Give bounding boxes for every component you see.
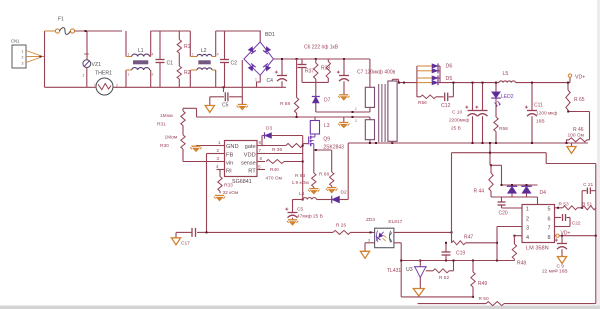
svg-text:C1: C1: [167, 61, 174, 67]
svg-text:22 мкФ 16В: 22 мкФ 16В: [542, 269, 568, 275]
svg-text:2: 2: [355, 119, 357, 123]
transformer primary winding: [365, 87, 374, 139]
svg-text:R 26: R 26: [336, 223, 346, 229]
svg-text:C5: C5: [297, 207, 303, 213]
wire primary top: [369, 59, 371, 87]
svg-text:C 9: C 9: [557, 263, 565, 269]
op-amp U4 LM358 box: [522, 205, 555, 252]
resistor R68: [319, 150, 334, 187]
svg-text:F1: F1: [58, 17, 64, 23]
svg-text:ZD3: ZD3: [366, 217, 375, 223]
svg-text:L5: L5: [503, 71, 509, 77]
bridge diode 3: [248, 64, 256, 72]
resistor R37: [305, 59, 318, 82]
svg-text:GND: GND: [226, 144, 239, 150]
svg-text:RI: RI: [226, 168, 232, 174]
wire feedback: [567, 111, 589, 139]
thermistor THER1: [94, 70, 118, 95]
wire: [44, 31, 46, 87]
shunt ref U3 TL431: [387, 260, 433, 289]
svg-text:THER1: THER1: [95, 70, 112, 76]
wire primary mid lower: [355, 117, 370, 123]
svg-text:L2: L2: [201, 48, 207, 54]
resistor R58 startup: [280, 59, 299, 117]
wire: [183, 108, 197, 117]
svg-text:R 53: R 53: [559, 202, 569, 208]
resistor R2: [177, 53, 191, 87]
svg-text:EL817: EL817: [388, 219, 402, 225]
right rail: [595, 164, 597, 304]
inductor L5: [499, 71, 516, 83]
svg-text:R2: R2: [184, 70, 191, 76]
wire primary mid upper: [316, 107, 370, 113]
svg-text:R 44: R 44: [474, 189, 485, 195]
diode: [432, 80, 440, 85]
wire opto emitter: [394, 243, 401, 297]
svg-text:8: 8: [547, 235, 550, 241]
VD+ terminal: [568, 74, 585, 83]
svg-text:C6 222 пф 1кВ: C6 222 пф 1кВ: [304, 45, 339, 51]
wire aux to winding: [347, 143, 349, 200]
svg-text:2: 2: [526, 216, 529, 222]
svg-text:LED2: LED2: [501, 94, 514, 100]
svg-text:R49: R49: [478, 281, 487, 287]
varistor VZ1: [83, 31, 102, 87]
svg-text:R33: R33: [224, 183, 233, 189]
svg-text:Q9: Q9: [323, 136, 330, 142]
diode row wires: [417, 66, 440, 97]
opto internals: [374, 230, 392, 243]
resistor R53: [555, 202, 583, 210]
diode D7: [312, 82, 331, 112]
svg-text:2200мкф: 2200мкф: [449, 118, 469, 124]
resistor R56 snubber: [417, 95, 444, 106]
svg-text:C4: C4: [267, 78, 274, 84]
svg-text:1: 1: [22, 50, 24, 54]
wire opto cathode: [365, 238, 375, 251]
inductor L3: [310, 117, 329, 134]
svg-text:16В: 16В: [536, 119, 545, 125]
svg-text:D3: D3: [266, 126, 272, 132]
svg-text:3: 3: [128, 53, 130, 57]
ground: [557, 257, 566, 264]
transformer secondary winding: [388, 81, 397, 141]
RC comp C21 R51: [581, 182, 596, 210]
wire bridge top: [259, 31, 261, 42]
svg-text:4: 4: [217, 53, 219, 57]
vref node wire: [401, 260, 514, 262]
wire jog L2 out: [215, 31, 217, 87]
svg-text:7: 7: [547, 226, 550, 232]
inductor L1: [126, 48, 154, 77]
wire jog L1 in: [125, 31, 127, 87]
svg-text:L1: L1: [138, 48, 144, 54]
capacitor C11: [525, 82, 558, 144]
svg-text:VDD: VDD: [244, 152, 256, 158]
svg-text:L3: L3: [324, 123, 330, 129]
svg-text:vin: vin: [226, 160, 233, 166]
ground: [360, 251, 369, 258]
primary DC rail: [273, 58, 370, 60]
svg-text:R37: R37: [305, 69, 314, 75]
svg-text:1: 1: [192, 53, 194, 57]
resistor R26: [333, 223, 351, 235]
capacitor C6: [298, 59, 307, 82]
ground: [413, 289, 424, 297]
secondary rail top: [392, 79, 417, 83]
svg-text:R1: R1: [184, 44, 191, 50]
svg-text:47мкф 25 В: 47мкф 25 В: [297, 214, 323, 220]
svg-text:1Мом: 1Мом: [165, 135, 178, 141]
svg-text:3: 3: [22, 62, 24, 66]
svg-text:5: 5: [258, 165, 261, 170]
ground: [567, 143, 576, 154]
wire jog L1 out: [150, 31, 152, 87]
capacitor C12: [441, 83, 453, 109]
svg-text:D5: D5: [446, 76, 453, 82]
svg-text:25 В: 25 В: [451, 126, 461, 132]
svg-text:R 63: R 63: [295, 173, 305, 179]
svg-text:4: 4: [152, 53, 154, 57]
svg-text:1.9 кОм: 1.9 кОм: [292, 180, 309, 186]
svg-text:R 65: R 65: [574, 97, 585, 103]
bridge diode 2: [263, 46, 271, 54]
wire block top: [452, 152, 596, 243]
svg-text:7: 7: [259, 148, 262, 153]
svg-text:1200 мкф: 1200 мкф: [536, 111, 557, 117]
SG6841 pin stubs: [217, 146, 266, 170]
resistor R31: [157, 108, 185, 135]
svg-text:VD+: VD+: [575, 75, 585, 81]
capacitor C20: [498, 197, 508, 217]
ground: [308, 189, 320, 195]
svg-text:C 10: C 10: [452, 110, 462, 116]
svg-text:R38: R38: [321, 66, 330, 72]
svg-text:1: 1: [526, 207, 529, 213]
wire drain: [314, 133, 316, 135]
svg-text:C 21: C 21: [583, 182, 593, 188]
capacitor C10b: [449, 82, 488, 144]
capacitor C19: [442, 242, 466, 261]
svg-text:C19: C19: [456, 251, 465, 257]
transistor Q9: [309, 134, 344, 151]
svg-text:470 Ом: 470 Ом: [266, 175, 282, 181]
ground: [338, 117, 350, 128]
svg-text:U3: U3: [406, 267, 413, 273]
wire: [400, 260, 473, 297]
svg-text:4: 4: [216, 164, 219, 169]
feedback line: [206, 231, 334, 233]
capacitor C9: [542, 235, 568, 275]
svg-text:3: 3: [217, 156, 220, 161]
diode D3: [262, 126, 303, 146]
resistor R38: [321, 59, 331, 82]
svg-text:1: 1: [255, 78, 257, 82]
svg-text:R 51: R 51: [582, 202, 592, 208]
svg-text:2: 2: [217, 148, 220, 153]
wire: [351, 217, 376, 234]
resistor R30: [160, 135, 185, 162]
ac bottom rail: [45, 86, 287, 88]
wire vdd/gate node: [257, 136, 304, 200]
wire: [317, 199, 332, 201]
svg-text:C22: C22: [572, 220, 581, 226]
ground: [214, 196, 226, 202]
transformer core: [379, 84, 385, 142]
svg-text:TL431: TL431: [387, 268, 401, 274]
diode D2: [332, 190, 349, 204]
svg-text:L4: L4: [299, 191, 305, 197]
svg-text:1: 1: [218, 140, 221, 145]
ground: [237, 60, 249, 110]
ground: [338, 95, 350, 101]
wire D4 out: [501, 184, 538, 205]
capacitor C5 aux: [285, 200, 323, 220]
svg-text:CN1: CN1: [11, 39, 20, 44]
svg-text:D7: D7: [324, 98, 331, 104]
svg-text:3: 3: [526, 226, 529, 232]
svg-text:1: 1: [128, 73, 130, 77]
SG6841 pin numbers: [216, 140, 263, 170]
wire pin2 fb: [207, 154, 217, 233]
filter top rail: [151, 30, 261, 32]
svg-text:3: 3: [368, 238, 370, 242]
resistor R65: [566, 82, 585, 112]
ground: [205, 106, 214, 113]
svg-text:6: 6: [547, 216, 550, 222]
capacitor C1: [156, 31, 174, 87]
label C6: [304, 45, 339, 51]
svg-text:D4: D4: [540, 190, 547, 196]
resistor R63: [292, 150, 317, 188]
svg-text:D6: D6: [446, 64, 453, 70]
svg-text:R 68: R 68: [319, 172, 329, 178]
svg-text:R31: R31: [157, 122, 166, 128]
capacitor C2: [220, 31, 237, 87]
svg-text:R56: R56: [418, 100, 427, 106]
wire pin4 R48: [512, 235, 526, 267]
inductor L4: [299, 191, 317, 200]
CN1 pin wires: [26, 51, 45, 63]
resistor R36: [265, 144, 303, 154]
bridge diode 1: [248, 46, 256, 54]
svg-text:1: 1: [94, 83, 96, 87]
svg-text:gate: gate: [245, 144, 256, 150]
wire snubber bottom: [302, 81, 328, 83]
diode D6: [432, 63, 452, 69]
wire block frame: [489, 142, 502, 185]
svg-text:32 кОм: 32 кОм: [223, 190, 239, 196]
svg-text:2: 2: [152, 73, 154, 77]
svg-text:LM 358N: LM 358N: [526, 246, 549, 252]
svg-text:C11: C11: [534, 103, 543, 109]
capacitor C5 line filter: [210, 86, 243, 108]
svg-text:C17: C17: [181, 241, 190, 247]
wire aux bottom: [369, 140, 371, 143]
svg-text:4: 4: [526, 235, 529, 241]
bridge BD1 outline: [244, 32, 275, 75]
resistor R58 led: [494, 99, 508, 145]
ground: [171, 238, 180, 245]
wire jog L2 in: [189, 31, 191, 87]
svg-text:C5: C5: [222, 103, 229, 109]
svg-text:R48: R48: [517, 261, 526, 267]
svg-text:8: 8: [259, 140, 262, 145]
bottom rail: [418, 296, 596, 306]
svg-text:R30: R30: [160, 143, 169, 149]
SG6841 pin names: [226, 144, 256, 174]
resistor R33: [217, 170, 239, 197]
svg-text:C2: C2: [231, 61, 238, 67]
svg-text:R 52: R 52: [439, 275, 449, 281]
svg-text:R40: R40: [270, 167, 279, 173]
diode D5: [432, 75, 452, 81]
svg-text:C12: C12: [441, 103, 451, 109]
svg-text:VZ1: VZ1: [92, 62, 102, 68]
svg-text:SG6841: SG6841: [232, 179, 252, 185]
resistor R1: [177, 31, 191, 53]
resistor R52: [433, 261, 454, 281]
VD+ supply: [555, 231, 597, 238]
svg-text:FB: FB: [226, 152, 233, 158]
wire pin3: [496, 227, 522, 261]
svg-text:R58: R58: [499, 126, 508, 132]
connector CN1: [11, 39, 26, 69]
wire bridge bottom: [255, 75, 260, 87]
resistor R40: [266, 160, 303, 182]
svg-text:R 58: R 58: [280, 101, 290, 107]
opto U2 EL817 box: [375, 219, 403, 248]
capacitor C10a: [465, 82, 477, 144]
svg-text:BD1: BD1: [265, 32, 275, 38]
LED LED2: [491, 82, 514, 108]
svg-text:R47: R47: [464, 235, 473, 241]
wire opto collector: [394, 231, 453, 233]
svg-text:C20: C20: [499, 211, 508, 217]
resistor R49: [471, 261, 488, 298]
secondary bottom rail: [348, 141, 588, 144]
diode: [432, 68, 440, 73]
output rail right: [516, 82, 571, 84]
svg-text:R 46: R 46: [573, 127, 584, 133]
capacitor C22: [555, 214, 581, 227]
svg-text:D2: D2: [341, 190, 347, 196]
wire vdd aux: [293, 199, 304, 201]
bridge diode 4: [263, 64, 271, 72]
svg-text:5: 5: [547, 207, 550, 213]
resistor R47: [452, 235, 498, 245]
capacitor C7: [337, 59, 396, 95]
capacitor C17: [176, 228, 207, 247]
wire pin3 vin: [183, 161, 217, 163]
resistor R46: [566, 127, 590, 144]
inductor L2: [190, 48, 218, 70]
svg-text:RT: RT: [248, 168, 256, 174]
startup rail: [197, 116, 370, 118]
diode D4: [491, 185, 546, 197]
wire source node: [314, 149, 332, 151]
svg-text:R 50: R 50: [479, 296, 489, 302]
svg-text:6: 6: [260, 156, 263, 161]
resistor R44: [474, 165, 494, 197]
svg-text:1Мом: 1Мом: [160, 113, 173, 119]
wire: [75, 30, 122, 32]
LM358 pin numbers: [526, 207, 551, 242]
svg-text:2: 2: [83, 74, 85, 78]
ground: [287, 220, 299, 226]
wire pin1: [502, 207, 523, 209]
wire: [45, 30, 56, 32]
op-amp U1 SG6841 box: [225, 141, 258, 185]
fuse F1: [55, 17, 74, 35]
svg-text:100 Ом: 100 Ом: [568, 133, 584, 139]
svg-text:1: 1: [355, 107, 357, 111]
ground: [326, 188, 338, 194]
wire gate: [303, 143, 308, 145]
svg-text:C7 120мкф 400в: C7 120мкф 400в: [357, 70, 396, 76]
wire pin1 gnd: [196, 145, 217, 147]
output rail: [440, 82, 499, 84]
svg-text:R 36: R 36: [272, 147, 282, 153]
capacitor C4: [267, 59, 288, 87]
svg-text:2: 2: [22, 56, 24, 60]
ground: [190, 146, 202, 152]
svg-text:sense: sense: [241, 160, 256, 166]
